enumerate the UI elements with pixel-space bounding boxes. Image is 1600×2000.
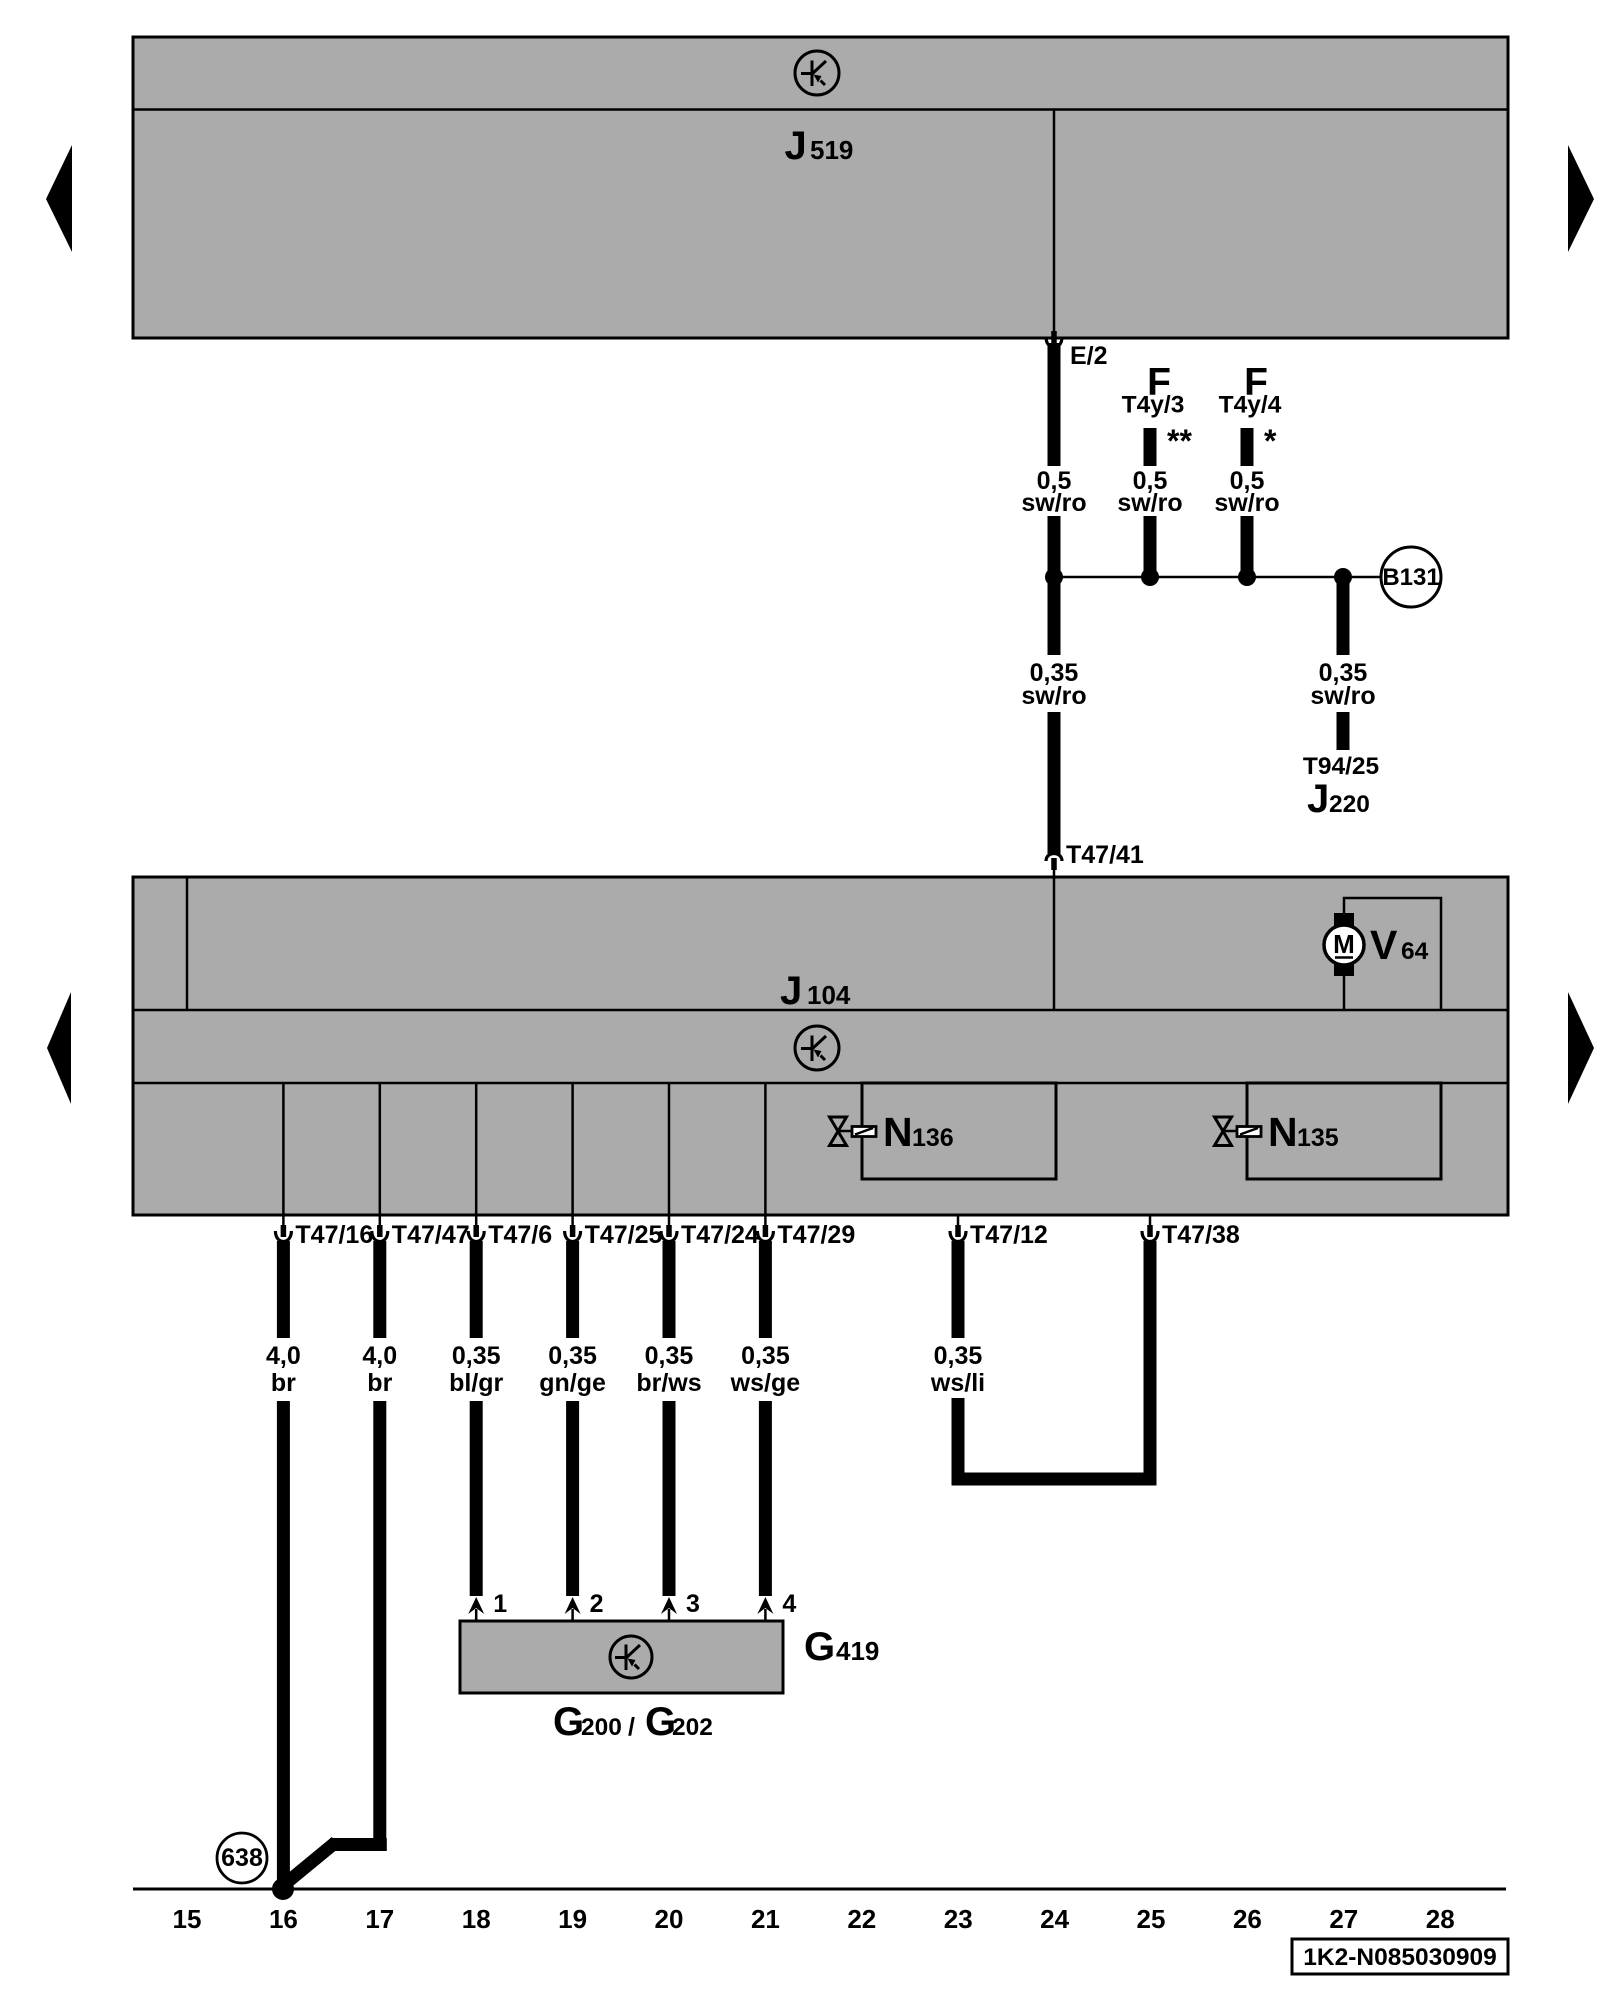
svg-text:T47/38: T47/38 [1162,1221,1240,1249]
svg-text:sw/ro: sw/ro [1021,682,1086,710]
svg-text:V: V [1370,922,1398,968]
svg-text:4: 4 [782,1590,796,1618]
svg-text:G: G [804,1625,835,1669]
svg-text:202: 202 [672,1714,713,1741]
svg-text:0,35: 0,35 [452,1342,501,1370]
svg-text:1: 1 [493,1590,507,1618]
svg-text:4,0: 4,0 [266,1342,301,1370]
svg-text:T47/12: T47/12 [970,1221,1048,1249]
svg-text:519: 519 [810,135,853,165]
svg-text:19: 19 [558,1904,587,1934]
svg-text:ws/ge: ws/ge [730,1369,801,1397]
svg-text:21: 21 [751,1904,780,1934]
svg-text:23: 23 [944,1904,973,1934]
svg-text:2: 2 [590,1590,604,1618]
svg-text:G: G [553,1700,584,1744]
svg-text:17: 17 [365,1904,394,1934]
svg-text:ws/li: ws/li [930,1369,985,1397]
svg-text:N: N [883,1109,913,1155]
svg-text:br/ws: br/ws [636,1369,701,1397]
svg-text:br: br [271,1369,296,1397]
svg-text:4,0: 4,0 [362,1342,397,1370]
svg-text:28: 28 [1426,1904,1455,1934]
svg-text:18: 18 [462,1904,491,1934]
svg-text:T4y/4: T4y/4 [1219,392,1282,419]
svg-text:sw/ro: sw/ro [1310,682,1375,710]
svg-text:N: N [1268,1109,1298,1155]
svg-text:20: 20 [655,1904,684,1934]
svg-text:0,35: 0,35 [934,1342,983,1370]
svg-text:16: 16 [269,1904,298,1934]
svg-text:104: 104 [807,980,851,1010]
svg-text:sw/ro: sw/ro [1214,489,1279,517]
svg-text:T47/41: T47/41 [1066,841,1144,869]
svg-text:200: 200 [581,1714,622,1741]
svg-text:/: / [628,1713,635,1741]
svg-text:136: 136 [912,1124,954,1152]
svg-text:1K2-N085030909: 1K2-N085030909 [1303,1944,1496,1971]
svg-text:*: * [1264,423,1277,459]
svg-text:**: ** [1167,423,1192,459]
svg-text:T4y/3: T4y/3 [1122,392,1185,419]
svg-text:419: 419 [836,1636,879,1666]
svg-text:135: 135 [1297,1124,1339,1152]
svg-text:0,35: 0,35 [645,1342,694,1370]
svg-text:E/2: E/2 [1070,342,1108,370]
svg-text:64: 64 [1401,938,1429,965]
svg-text:T47/16: T47/16 [295,1221,373,1249]
svg-text:gn/ge: gn/ge [539,1369,606,1397]
svg-text:T47/24: T47/24 [681,1221,759,1249]
svg-text:24: 24 [1040,1904,1069,1934]
svg-text:15: 15 [173,1904,202,1934]
svg-text:B131: B131 [1382,564,1439,591]
svg-text:sw/ro: sw/ro [1117,489,1182,517]
svg-text:T47/47: T47/47 [392,1221,470,1249]
svg-text:J: J [1307,777,1329,821]
svg-text:J: J [785,124,807,168]
svg-text:638: 638 [221,1844,263,1872]
svg-text:22: 22 [847,1904,876,1934]
svg-text:26: 26 [1233,1904,1262,1934]
svg-text:sw/ro: sw/ro [1021,489,1086,517]
svg-text:J: J [780,969,802,1013]
svg-text:M: M [1333,929,1355,959]
svg-text:T47/25: T47/25 [585,1221,663,1249]
svg-text:0,35: 0,35 [548,1342,597,1370]
svg-text:27: 27 [1329,1904,1358,1934]
svg-text:3: 3 [686,1590,700,1618]
svg-text:br: br [367,1369,392,1397]
svg-text:T47/6: T47/6 [488,1221,552,1249]
svg-text:bl/gr: bl/gr [449,1369,503,1397]
svg-text:T94/25: T94/25 [1303,753,1379,780]
svg-text:220: 220 [1329,791,1370,818]
svg-text:T47/29: T47/29 [777,1221,855,1249]
svg-text:25: 25 [1137,1904,1166,1934]
svg-text:0,35: 0,35 [741,1342,790,1370]
